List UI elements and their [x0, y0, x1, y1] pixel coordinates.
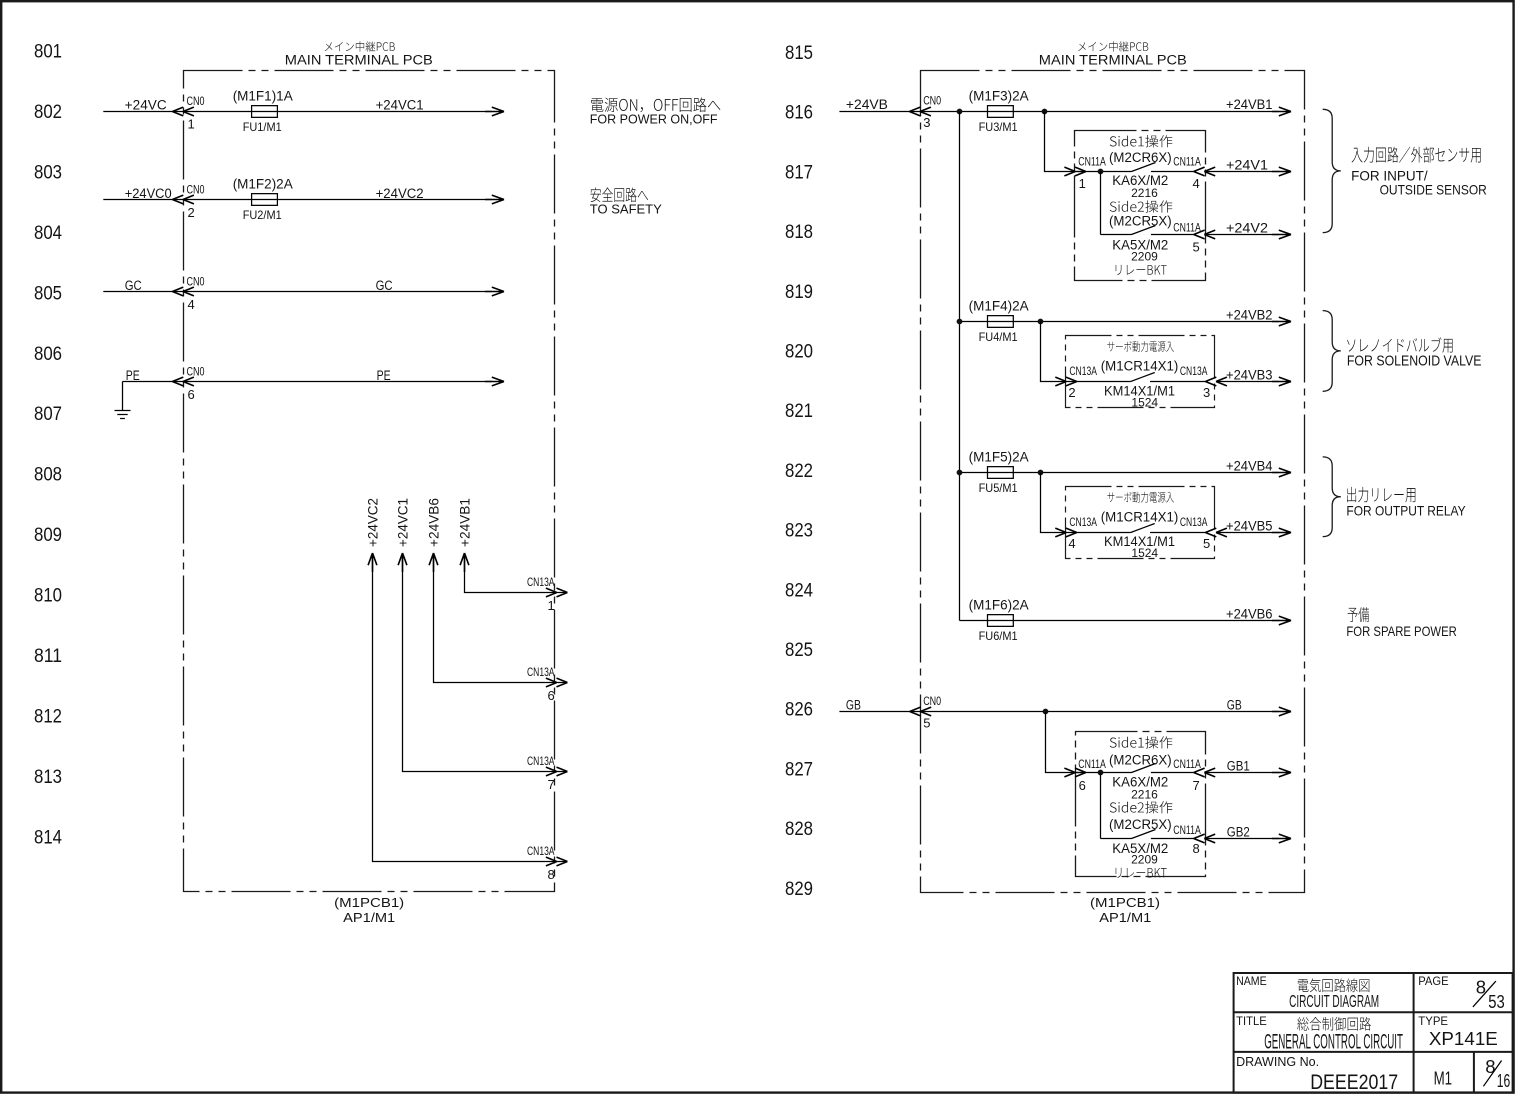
wire 826 GB [839, 711, 1279, 713]
svg-text:8: 8 [548, 867, 555, 882]
svg-text:CN13A: CN13A [1180, 515, 1208, 529]
svg-text:6: 6 [188, 387, 195, 402]
svg-text:FU4/M1: FU4/M1 [979, 330, 1018, 344]
svg-text:+24VB: +24VB [846, 97, 888, 112]
svg-text:1: 1 [188, 117, 195, 132]
svg-text:805: 805 [34, 283, 62, 304]
arrow +24VB5 [1272, 528, 1291, 537]
arrow up +24VB6 [429, 553, 438, 572]
svg-text:PAGE: PAGE [1418, 974, 1448, 988]
connector CN0 pin 4 [172, 287, 194, 296]
svg-text:+24VC1: +24VC1 [376, 97, 424, 112]
contact blade KA5X/M2 [1132, 226, 1156, 235]
note 電源ON，OFF回路へ [591, 97, 720, 112]
arrow GB1 [1272, 768, 1291, 777]
arrow +24VB2 [1272, 317, 1291, 326]
svg-text:829: 829 [785, 879, 813, 900]
svg-text:3: 3 [923, 115, 930, 130]
wire contact KA6X right [1151, 171, 1194, 173]
svg-text:819: 819 [785, 282, 813, 303]
svg-text:811: 811 [34, 646, 62, 667]
connector CN13A pin 2 entry [1055, 377, 1077, 386]
svg-text:+24V1: +24V1 [1226, 157, 1268, 172]
fuse FU5/M1 (M1F5)2A [969, 450, 1029, 495]
svg-text:GENERAL CONTROL CIRCUIT: GENERAL CONTROL CIRCUIT [1264, 1031, 1403, 1054]
arrow +24VB1 [1272, 107, 1291, 116]
title sheet slash [1483, 1061, 1501, 1087]
svg-text:7: 7 [1193, 778, 1200, 793]
svg-text:804: 804 [34, 223, 62, 244]
contact blade KA6X/M2 [1132, 163, 1156, 172]
svg-text:FU2/M1: FU2/M1 [243, 208, 282, 222]
svg-text:825: 825 [785, 640, 813, 661]
svg-text:+24VB1: +24VB1 [457, 498, 472, 547]
svg-text:(M1F5)2A: (M1F5)2A [969, 450, 1029, 465]
svg-text:CN13A: CN13A [527, 665, 555, 679]
svg-text:+24VB6: +24VB6 [1226, 606, 1273, 621]
svg-text:(M2CR6X): (M2CR6X) [1109, 150, 1172, 165]
svg-text:CN11A: CN11A [1173, 220, 1201, 234]
svg-text:817: 817 [785, 162, 813, 183]
svg-text:(M1CR14X1): (M1CR14X1) [1101, 359, 1179, 374]
svg-text:FU1/M1: FU1/M1 [243, 120, 282, 134]
svg-text:CN11A: CN11A [1173, 757, 1201, 771]
svg-text:GB: GB [846, 697, 861, 712]
fuse FU6/M1 (M1F6)2A [969, 598, 1029, 643]
svg-text:(M2CR5X): (M2CR5X) [1109, 213, 1172, 228]
svg-text:828: 828 [785, 819, 813, 840]
svg-text:CN0: CN0 [187, 94, 205, 108]
label Side1操作 lower [1110, 736, 1173, 748]
arrow +24VB6 [1272, 616, 1291, 625]
svg-text:820: 820 [785, 342, 813, 363]
junction 816 bus tap [957, 109, 963, 115]
fuse FU1/M1 (M1F1)1A [233, 89, 293, 134]
connector CN0 pin 3 [909, 107, 931, 116]
connector CN13A pin 8 (left PCB exit) [546, 857, 568, 866]
brace solenoid valve group [1323, 311, 1341, 392]
connector CN11A pin 1 entry [1064, 167, 1086, 176]
svg-text:(M1PCB1): (M1PCB1) [1090, 895, 1160, 910]
svg-text:GB2: GB2 [1227, 824, 1250, 839]
label Side1操作 [1110, 135, 1173, 147]
connector CN13A pin 1 (left PCB exit) [546, 588, 568, 597]
wire 825 +24VB6 [960, 620, 1280, 622]
svg-text:GB1: GB1 [1227, 758, 1250, 773]
label リレーBKT upper [1116, 265, 1167, 275]
brace output relay group [1323, 457, 1341, 537]
svg-text:FOR POWER ON,OFF: FOR POWER ON,OFF [590, 112, 718, 126]
wire branch to KM14X1 contact (lower servo box) [1041, 473, 1131, 533]
svg-text:TYPE: TYPE [1418, 1014, 1448, 1028]
svg-text:816: 816 [785, 103, 813, 124]
svg-text:6: 6 [1079, 778, 1086, 793]
svg-text:MAIN TERMINAL PCB: MAIN TERMINAL PCB [1039, 53, 1187, 68]
note 入力回路／外部センサ用 [1352, 147, 1481, 163]
svg-text:TITLE: TITLE [1236, 1014, 1267, 1028]
arrow +24VB4 [1272, 468, 1291, 477]
svg-text:CN11A: CN11A [1173, 154, 1201, 168]
wire contact KA6X left lower [1076, 772, 1132, 774]
wire branch to KM14X1 contact (upper servo box) [1041, 322, 1131, 382]
svg-text:814: 814 [34, 827, 62, 848]
connector CN11A pin 8 exit [1194, 834, 1216, 843]
arrow +24VC1 [485, 107, 504, 116]
svg-text:3: 3 [1203, 385, 1210, 400]
arrow up +24VC1 [398, 553, 407, 572]
svg-text:(M1F2)2A: (M1F2)2A [233, 177, 293, 192]
wire bus riser FU3-FU6 [959, 112, 961, 621]
wire +24VB5 out [1217, 532, 1280, 534]
wire +24VB1 riser to CN13A pin 1 [465, 553, 568, 593]
arrow up +24VB1 [460, 553, 469, 572]
arrow GC [485, 287, 504, 296]
contactor box サーボ動力電源入 (lower) [1066, 487, 1215, 559]
connector CN11A pin 7 exit [1194, 768, 1216, 777]
wire GB2 out [1205, 838, 1279, 840]
label Side2操作 lower [1110, 801, 1173, 813]
svg-text:CN13A: CN13A [1180, 364, 1208, 378]
svg-text:821: 821 [785, 401, 813, 422]
wire 802 +24VC to +24VC1 [103, 111, 492, 113]
svg-text:(M1F6)2A: (M1F6)2A [969, 598, 1029, 613]
arrow up +24VC2 [368, 553, 377, 572]
relay bracket box リレーBKT (upper) [1075, 131, 1206, 281]
svg-text:1: 1 [548, 598, 555, 613]
svg-text:CN0: CN0 [187, 364, 205, 378]
svg-text:815: 815 [785, 43, 813, 64]
svg-text:FOR SOLENOID VALVE: FOR SOLENOID VALVE [1347, 354, 1482, 370]
junction 816 relay tap [1042, 109, 1048, 115]
svg-text:OUTSIDE SENSOR: OUTSIDE SENSOR [1380, 181, 1487, 197]
brace input/outside-sensor group [1323, 109, 1341, 232]
junction FU4 branch [1038, 319, 1044, 325]
svg-text:5: 5 [1193, 239, 1200, 254]
svg-text:CN0: CN0 [923, 694, 941, 708]
svg-text:827: 827 [785, 759, 813, 780]
connector CN0 pin 1 [172, 107, 194, 116]
arrow +24V1 [1272, 167, 1291, 176]
svg-text:NAME: NAME [1236, 974, 1267, 988]
svg-text:2209: 2209 [1131, 249, 1158, 263]
connector CN11A pin 6 entry [1064, 768, 1086, 777]
svg-text:AP1/M1: AP1/M1 [1099, 910, 1151, 925]
junction contact KA6X [1098, 169, 1104, 175]
label メイン中継PCB (right) [1078, 41, 1148, 51]
arrow +24VB3 [1272, 377, 1291, 386]
wire contact KA5X left lower [1101, 838, 1132, 840]
wire +24V2 out [1205, 234, 1279, 236]
svg-text:FOR OUTPUT RELAY: FOR OUTPUT RELAY [1346, 503, 1466, 519]
label サーボ動力電源入 upper [1107, 341, 1174, 352]
contactor box サーボ動力電源入 (upper) [1066, 336, 1215, 408]
note 予備 [1348, 607, 1369, 622]
junction FU4 bus [957, 319, 963, 325]
wire +24VC1 riser to CN13A pin 7 [403, 553, 568, 772]
svg-text:1524: 1524 [1131, 395, 1158, 409]
svg-text:CN11A: CN11A [1078, 154, 1106, 168]
svg-text:MAIN TERMINAL PCB: MAIN TERMINAL PCB [285, 53, 433, 68]
svg-text:+24VB3: +24VB3 [1226, 367, 1273, 382]
svg-text:2209: 2209 [1131, 853, 1158, 867]
junction contact KA6X lower [1098, 770, 1104, 776]
relay bracket box リレーBKT (lower) [1076, 732, 1206, 877]
svg-text:PE: PE [377, 368, 391, 383]
contact blade KA6X/M2 lower [1132, 764, 1156, 773]
svg-text:4: 4 [1068, 536, 1075, 551]
wire contact KA6X left [1075, 171, 1132, 173]
svg-text:7: 7 [548, 777, 555, 792]
wire 820 +24VB2 [960, 321, 1280, 323]
svg-text:808: 808 [34, 465, 62, 486]
PCB boundary M1PCB1 (left MAIN TERMINAL PCB) [184, 71, 555, 892]
svg-text:5: 5 [923, 715, 930, 730]
svg-text:8: 8 [1485, 1056, 1495, 1077]
svg-text:1524: 1524 [1131, 546, 1158, 560]
svg-text:FU5/M1: FU5/M1 [979, 481, 1018, 495]
svg-text:2216: 2216 [1131, 788, 1158, 802]
svg-text:+24VC2: +24VC2 [376, 186, 424, 201]
svg-text:TO SAFETY: TO SAFETY [590, 201, 662, 216]
wire contact KA5X right [1151, 234, 1194, 236]
svg-text:(M1F3)2A: (M1F3)2A [969, 89, 1029, 104]
svg-text:CN13A: CN13A [1069, 364, 1097, 378]
title 電気回路線図 [1298, 978, 1369, 992]
svg-text:CN13A: CN13A [527, 575, 555, 589]
svg-text:818: 818 [785, 222, 813, 243]
wire GB1 out [1205, 772, 1279, 774]
svg-text:CN0: CN0 [923, 94, 941, 108]
wire contact KM14X1 right upper [1150, 381, 1206, 383]
svg-text:+24VB5: +24VB5 [1226, 518, 1273, 533]
svg-text:1: 1 [1079, 176, 1086, 191]
connector CN13A pin 4 entry [1055, 528, 1077, 537]
svg-text:2216: 2216 [1131, 186, 1158, 200]
svg-text:CIRCUIT DIAGRAM: CIRCUIT DIAGRAM [1289, 991, 1379, 1011]
connector CN13A pin 6 (left PCB exit) [546, 678, 568, 687]
contact blade KM14X1 lower [1131, 524, 1155, 533]
wire contact KA5X right lower [1151, 838, 1194, 840]
svg-text:809: 809 [34, 525, 62, 546]
svg-text:812: 812 [34, 707, 62, 728]
wire branch to relay box lower [1046, 712, 1086, 773]
note 出力リレー用 [1347, 487, 1415, 503]
svg-text:(M1CR14X1): (M1CR14X1) [1101, 509, 1179, 524]
junction FU5 bus [957, 470, 963, 476]
title block frame [1234, 973, 1513, 1093]
wire contact KA5X left [1101, 234, 1132, 236]
svg-text:+24VC2: +24VC2 [365, 498, 380, 547]
svg-text:CN13A: CN13A [527, 754, 555, 768]
svg-text:6: 6 [548, 688, 555, 703]
svg-text:+24VC: +24VC [125, 97, 167, 112]
wire KA6X to KA5X link [1100, 172, 1102, 235]
svg-text:(M1PCB1): (M1PCB1) [334, 895, 404, 910]
wire contact KA6X right lower [1151, 772, 1194, 774]
svg-text:+24VB2: +24VB2 [1226, 307, 1273, 322]
label サーボ動力電源入 lower [1107, 492, 1174, 503]
svg-text:826: 826 [785, 700, 813, 721]
svg-text:CN0: CN0 [187, 274, 205, 288]
wire KA6X to KA5X link lower [1100, 773, 1102, 839]
wire +24VB6 riser to CN13A pin 6 [434, 553, 568, 683]
svg-text:810: 810 [34, 586, 62, 607]
svg-text:801: 801 [34, 42, 62, 63]
ground symbol on PE [115, 382, 131, 419]
connector CN0 pin 6 [172, 377, 194, 386]
svg-text:823: 823 [785, 521, 813, 542]
svg-text:(M1F4)2A: (M1F4)2A [969, 299, 1029, 314]
connector CN13A pin 7 (left PCB exit) [546, 767, 568, 776]
svg-text:824: 824 [785, 580, 813, 601]
svg-text:(M2CR5X): (M2CR5X) [1109, 817, 1172, 832]
wire +24VC2 riser to CN13A pin 8 [373, 553, 568, 862]
svg-text:CN11A: CN11A [1173, 823, 1201, 837]
note 安全回路へ [590, 188, 648, 203]
svg-text:(M2CR6X): (M2CR6X) [1109, 753, 1172, 768]
contact blade KM14X1 upper [1131, 373, 1155, 382]
wire contact KM14X1 right lower [1150, 532, 1206, 534]
svg-text:FU3/M1: FU3/M1 [979, 120, 1018, 134]
svg-text:DEEE2017: DEEE2017 [1310, 1071, 1398, 1094]
arrow GB [1272, 707, 1291, 716]
svg-text:+24VB4: +24VB4 [1226, 458, 1273, 473]
note ソレノイドバルブ用 [1347, 337, 1453, 352]
connector CN0 pin 2 [172, 195, 194, 204]
PCB boundary M1PCB1 (right MAIN TERMINAL PCB) [921, 71, 1305, 893]
title page slash [1473, 981, 1496, 1007]
svg-text:+24VC0: +24VC0 [125, 186, 172, 201]
connector CN13A pin 5 exit [1205, 528, 1227, 537]
connector CN11A pin 4 exit [1194, 167, 1216, 176]
svg-text:5: 5 [1203, 536, 1210, 551]
wire 803 +24VC0 to +24VC2 [103, 199, 492, 201]
connector CN13A pin 3 exit [1205, 377, 1227, 386]
svg-text:GC: GC [125, 278, 142, 293]
svg-text:AP1/M1: AP1/M1 [343, 910, 395, 925]
svg-text:DRAWING No.: DRAWING No. [1236, 1054, 1319, 1069]
wire 806 PE [123, 381, 493, 383]
title 総合制御回路 [1297, 1017, 1371, 1031]
fuse FU3/M1 (M1F3)2A [969, 89, 1029, 134]
contact blade KA5X/M2 lower [1132, 830, 1156, 839]
svg-text:CN11A: CN11A [1078, 757, 1106, 771]
svg-text:53: 53 [1488, 991, 1505, 1012]
junction GB branch [1043, 709, 1049, 715]
svg-text:807: 807 [34, 404, 62, 425]
fuse FU4/M1 (M1F4)2A [969, 299, 1029, 344]
svg-text:XP141E: XP141E [1429, 1028, 1498, 1049]
svg-text:+24VC1: +24VC1 [395, 498, 410, 547]
wire 822 +24VB4 [960, 472, 1280, 474]
svg-text:CN13A: CN13A [527, 844, 555, 858]
connector CN11A pin 5 exit [1194, 230, 1216, 239]
arrow +24V2 [1272, 230, 1291, 239]
svg-text:813: 813 [34, 767, 62, 788]
svg-text:GC: GC [376, 278, 393, 293]
svg-text:4: 4 [188, 297, 195, 312]
svg-text:16: 16 [1497, 1070, 1511, 1091]
label Side2操作 [1110, 200, 1173, 212]
svg-text:803: 803 [34, 162, 62, 183]
arrow +24VC2 [485, 195, 504, 204]
label メイン中継PCB (left) [325, 41, 395, 51]
wire 816 +24VB to +24VB1 [839, 111, 1279, 113]
svg-text:2: 2 [188, 205, 195, 220]
svg-text:4: 4 [1193, 176, 1200, 191]
wire +24V1 out [1205, 171, 1279, 173]
wire 805 GC [103, 291, 492, 293]
svg-text:806: 806 [34, 344, 62, 365]
fuse FU2/M1 (M1F2)2A [233, 177, 293, 222]
arrow PE [485, 377, 504, 386]
svg-text:8: 8 [1193, 841, 1200, 856]
svg-text:+24VB6: +24VB6 [426, 498, 441, 547]
svg-text:CN13A: CN13A [1069, 515, 1097, 529]
wire +24VB3 out [1217, 381, 1280, 383]
svg-text:PE: PE [126, 368, 140, 383]
svg-text:+24VB1: +24VB1 [1226, 97, 1273, 112]
svg-text:802: 802 [34, 102, 62, 123]
arrow GB2 [1272, 834, 1291, 843]
svg-text:822: 822 [785, 461, 813, 482]
svg-text:(M1F1)1A: (M1F1)1A [233, 89, 293, 104]
svg-text:M1: M1 [1434, 1067, 1453, 1088]
label リレーBKT lower [1116, 868, 1167, 878]
svg-text:+24V2: +24V2 [1226, 220, 1268, 235]
svg-text:FU6/M1: FU6/M1 [979, 629, 1018, 643]
wire branch to relay KA6X coil contact [1045, 112, 1086, 172]
junction FU5 branch [1038, 470, 1044, 476]
svg-text:FOR SPARE POWER: FOR SPARE POWER [1346, 623, 1456, 639]
connector CN0 pin 5 [910, 707, 932, 716]
svg-text:2: 2 [1068, 385, 1075, 400]
svg-text:GB: GB [1227, 697, 1242, 712]
svg-text:CN0: CN0 [187, 182, 205, 196]
